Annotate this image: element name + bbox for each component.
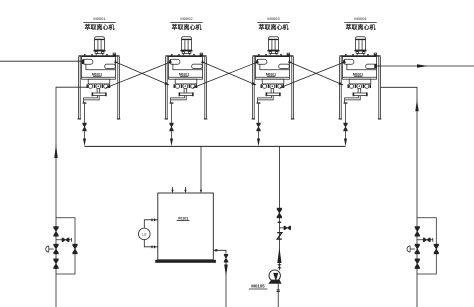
label M0003 xyxy=(267,16,280,21)
flow arrow right xyxy=(417,64,428,67)
pump M0105 xyxy=(269,270,280,281)
right solvent riser pipe xyxy=(381,87,418,307)
centrifuge M0001 xyxy=(78,37,121,147)
svg-text:V0101: V0101 xyxy=(178,216,188,220)
label M0002 xyxy=(180,16,193,21)
centrifuge M0003 xyxy=(252,37,295,147)
svg-text:M0004: M0004 xyxy=(354,16,367,21)
vent branch with valve xyxy=(279,227,283,229)
pump feed line from header xyxy=(278,146,280,270)
pipe header to tank xyxy=(200,146,202,191)
transfer line M0001 to M0002 xyxy=(116,62,170,85)
transfer line M0003 to M0004 xyxy=(290,62,344,85)
transfer line M0002 to M0001 xyxy=(106,62,171,88)
pump base xyxy=(268,280,281,284)
svg-text:萃取离心机: 萃取离心机 xyxy=(171,23,201,31)
svg-text:萃取离心机: 萃取离心机 xyxy=(258,23,288,31)
tank drain valve xyxy=(224,254,228,262)
svg-text:M0105: M0105 xyxy=(251,283,265,288)
pump label M0105 xyxy=(251,283,265,288)
drain flow arrow xyxy=(224,265,228,277)
svg-text:M0001: M0001 xyxy=(93,16,106,21)
left solvent riser pipe xyxy=(56,87,89,307)
label M0004 xyxy=(354,16,367,21)
transfer line M0003 to M0002 xyxy=(193,62,258,88)
svg-text:萃取离心机: 萃取离心机 xyxy=(84,23,114,31)
product line out of M0004 xyxy=(376,65,474,67)
level gauge flange ticks xyxy=(151,219,152,222)
riser up arrow xyxy=(415,99,418,111)
centrifuge M0002 xyxy=(165,37,208,147)
label M0001 xyxy=(93,16,106,21)
outlet flange on M0004 xyxy=(374,64,377,69)
transfer line M0002 to M0003 xyxy=(203,62,257,85)
pipe break symbol xyxy=(277,233,282,240)
riser up arrow xyxy=(54,144,57,158)
svg-text:萃取离心机: 萃取离心机 xyxy=(345,23,375,31)
tank drain pipe xyxy=(213,250,226,253)
upward flow arrow xyxy=(277,247,281,263)
transfer line M0004 to M0003 xyxy=(280,62,345,88)
level gauge piping xyxy=(144,220,158,247)
bottom header pipe xyxy=(85,145,346,147)
tank top nozzle stub 1 xyxy=(172,187,174,191)
left valve station xyxy=(46,218,78,274)
centrifuge M0004 xyxy=(339,37,382,147)
tank label V0101 xyxy=(178,216,188,220)
inlet flange on M0001 xyxy=(82,60,85,65)
pump line valve xyxy=(277,208,281,218)
svg-text:M0002: M0002 xyxy=(180,16,193,21)
tank base plate xyxy=(155,260,216,263)
buffer tank V0101 xyxy=(158,193,214,260)
coupling flanges xyxy=(277,264,281,266)
right valve station xyxy=(407,218,439,274)
pump suction line xyxy=(277,284,279,307)
svg-text:LG: LG xyxy=(142,232,147,236)
tank top nozzle stub 2 xyxy=(185,187,187,191)
level gauge LG xyxy=(139,228,151,240)
feed line into M0001 xyxy=(0,60,82,62)
svg-text:M0003: M0003 xyxy=(267,16,280,21)
